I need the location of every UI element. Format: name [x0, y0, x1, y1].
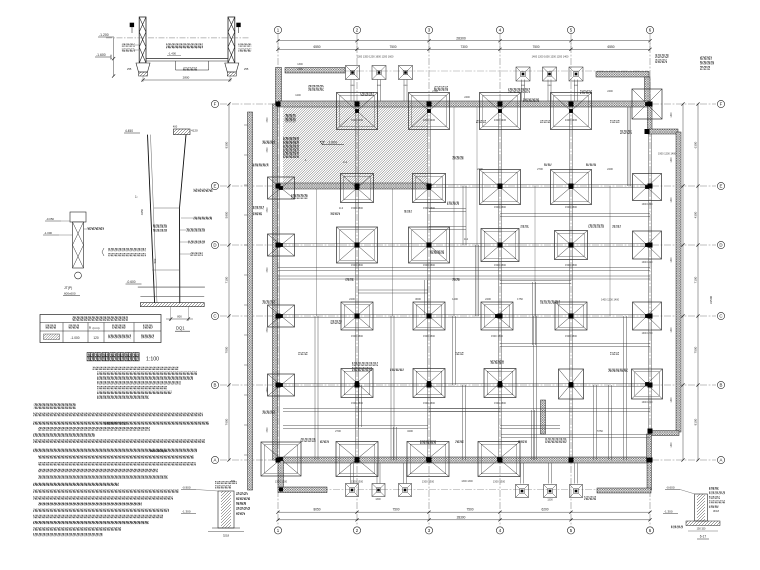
small footing top x=405.5 — [399, 66, 413, 80]
svg-text:1500 1500: 1500 1500 — [351, 402, 363, 405]
svg-text:B: B — [214, 383, 217, 388]
grid: horizontal axis lines A-F — [220, 103, 716, 105]
small footing bottom-right x=522 — [516, 485, 529, 498]
footing J-1 at C6 — [633, 302, 662, 330]
column at E2 — [355, 184, 360, 189]
svg-text:1400: 1400 — [671, 442, 673, 448]
svg-text:-0.900: -0.900 — [182, 486, 191, 490]
svg-text:D: D — [213, 243, 216, 248]
wall: right lower step horizontal — [649, 431, 679, 436]
column at lower step — [648, 429, 653, 434]
grid bubble F — [211, 100, 218, 107]
grid bubble C — [211, 312, 218, 319]
svg-text:1500: 1500 — [267, 387, 269, 393]
svg-text:7000: 7000 — [225, 346, 229, 353]
svg-text:JL3: JL3 — [339, 206, 344, 210]
column at A3 — [427, 458, 432, 463]
svg-text:1500 1500: 1500 1500 — [565, 335, 577, 338]
grid bubble 6 — [646, 527, 653, 534]
svg-text:2800: 2800 — [183, 76, 190, 80]
svg-text:fak=300kpa: fak=300kpa — [150, 449, 167, 453]
footing J-2 at C5 — [555, 302, 587, 330]
svg-text:1500 1500: 1500 1500 — [494, 264, 506, 267]
elevator pit hatched area (-1.000) — [283, 107, 427, 183]
grid bubble 1 — [274, 26, 281, 33]
svg-text:1500 1500: 1500 1500 — [351, 335, 363, 338]
column at C2 — [355, 314, 360, 319]
column at E4 — [498, 184, 503, 189]
pit slab — [146, 58, 228, 60]
partition walls: corridor D-C — [475, 245, 477, 316]
column at D3 — [427, 243, 432, 248]
footing J-1 at E6 — [633, 174, 662, 201]
svg-text:5750: 5750 — [597, 429, 603, 433]
footing J-3 at F4 — [480, 93, 521, 130]
grid bubble 1 — [274, 527, 281, 534]
svg-text:2400: 2400 — [607, 90, 613, 93]
svg-text:7500: 7500 — [392, 508, 399, 512]
svg-text:1300: 1300 — [547, 499, 553, 502]
footing J-1 at B1 — [268, 374, 295, 396]
tower cap — [174, 129, 191, 135]
svg-text:1300 1300: 1300 1300 — [351, 118, 364, 122]
wall: left retaining wall DQ1 — [248, 112, 253, 490]
column at E3 — [427, 184, 432, 189]
svg-text:JT(P): JT(P) — [64, 286, 72, 290]
grid bubble 4 — [496, 527, 503, 534]
stub beams to bottom mini footings — [350, 463, 352, 484]
svg-text:2700: 2700 — [537, 167, 543, 171]
svg-text:1500 1500: 1500 1500 — [351, 264, 363, 267]
slab thickness leader note — [108, 248, 146, 251]
column at D1 — [276, 243, 281, 248]
retaining wall ties — [244, 124, 248, 126]
column at D2 — [355, 243, 360, 248]
svg-text:7300: 7300 — [460, 45, 467, 49]
wall: right step vertical 1 — [648, 104, 653, 132]
svg-text:2700: 2700 — [432, 90, 438, 93]
grid bubble 3 — [425, 26, 432, 33]
svg-text:1300 1300: 1300 1300 — [642, 333, 654, 335]
column at B4 — [498, 383, 503, 388]
scattered annotation text clusters — [291, 194, 308, 199]
svg-text:-0.050: -0.050 — [46, 217, 54, 221]
svg-text:1300: 1300 — [297, 63, 303, 66]
svg-text:-1.400: -1.400 — [168, 52, 176, 56]
foundation beams along grid cols — [355, 104, 357, 460]
grid bubble 3 — [425, 527, 432, 534]
column at A6 — [648, 458, 653, 463]
svg-text:B: B — [720, 383, 723, 388]
grid bubble F — [717, 100, 724, 107]
footing J-1 at D6 — [633, 231, 662, 259]
svg-text:C: C — [719, 314, 722, 319]
column at D6 — [648, 243, 653, 248]
svg-text:1300 1300: 1300 1300 — [565, 118, 578, 122]
column at F2 — [355, 102, 360, 107]
small footing top-right x=549.5 — [543, 67, 557, 81]
footing J-3 at F2 — [337, 93, 378, 130]
small footing top x=352.5 — [346, 66, 360, 80]
column at A4 — [498, 458, 503, 463]
wall: top-left outer segment — [285, 68, 345, 74]
column at C1 — [276, 314, 281, 319]
column at D5 — [569, 243, 574, 248]
footing J-3 at F3 — [409, 93, 450, 130]
drawing title — [87, 353, 159, 363]
svg-text:1400 1200 1400: 1400 1200 1400 — [601, 299, 620, 302]
svg-text:4120: 4120 — [191, 129, 198, 133]
svg-text:1400: 1400 — [671, 257, 673, 263]
svg-text:28300: 28300 — [457, 515, 466, 519]
svg-text:1300 1300: 1300 1300 — [275, 480, 288, 484]
svg-text:1500: 1500 — [267, 327, 269, 333]
footing J-3 at A1 — [261, 442, 301, 476]
pit level label -1.000 — [320, 141, 344, 145]
retaining wall label — [253, 163, 269, 166]
svg-text:3400: 3400 — [407, 429, 413, 433]
svg-text:2400: 2400 — [464, 96, 470, 99]
svg-text:3600: 3600 — [415, 297, 421, 301]
grid bubble 2 — [353, 527, 360, 534]
svg-text:1500: 1500 — [267, 427, 269, 433]
detail: wall section 1-1 (bottom centre-left) — [181, 481, 250, 538]
grid bubble D — [211, 241, 218, 248]
footing J-2 at D5 — [555, 231, 588, 260]
footing J-2 at F6 — [632, 89, 662, 119]
dimension line top outer — [278, 40, 650, 42]
footing J-3 at E5 — [551, 170, 592, 205]
column below A1 — [279, 488, 283, 492]
svg-text:1500 1500: 1500 1500 — [565, 264, 577, 267]
column at D4 — [498, 243, 503, 248]
column at C4 — [498, 314, 503, 319]
svg-text:1400: 1400 — [671, 327, 673, 333]
svg-text:A: A — [720, 458, 723, 463]
svg-text:1400: 1400 — [671, 112, 673, 118]
svg-text:-1.000: -1.000 — [70, 336, 79, 340]
tower right leader labels — [193, 189, 213, 192]
svg-text:1200: 1200 — [295, 94, 301, 97]
legend table — [40, 315, 161, 343]
small footing bottom x=378.5 — [372, 484, 385, 497]
svg-text:7500: 7500 — [694, 346, 698, 353]
pit annotation text — [285, 114, 296, 122]
pit section left wall — [139, 17, 146, 63]
footing J-1 at D1 — [268, 234, 295, 256]
detail: elevator pit A-A section — [95, 17, 251, 82]
dimension lines right — [682, 104, 684, 460]
svg-text:1400: 1400 — [452, 297, 458, 301]
pit section footing feet — [136, 63, 150, 72]
dimension line bottom outer — [278, 519, 650, 521]
footing J-3 at D2 — [337, 227, 378, 263]
grid bubble D — [717, 241, 724, 248]
wall: left exterior wall — [273, 104, 278, 460]
footing J-3 at F5 — [551, 93, 592, 130]
svg-text:1300 1300: 1300 1300 — [423, 118, 436, 122]
small footing bottom x=405 — [399, 484, 412, 497]
partition walls: rooms bottom-right — [501, 434, 650, 436]
svg-text:1500 1500: 1500 1500 — [423, 402, 435, 405]
wall: right lower vertical — [647, 434, 652, 461]
svg-text:-1.300: -1.300 — [182, 510, 191, 514]
svg-text:1300: 1300 — [297, 68, 303, 71]
svg-text:1300 1300: 1300 1300 — [642, 204, 654, 206]
svg-text:4450: 4450 — [140, 208, 144, 215]
wall: top-left corner vertical — [276, 68, 282, 105]
wall: bottom wall on grid A — [278, 457, 650, 463]
svg-text:1500 1500: 1500 1500 — [565, 206, 577, 209]
svg-text:1:: 1: — [135, 195, 138, 199]
small footing bottom-right x=576 — [570, 485, 583, 498]
svg-text:1300 1300: 1300 1300 — [422, 480, 435, 484]
svg-text:800: 800 — [177, 315, 182, 319]
svg-text:2700: 2700 — [335, 429, 341, 433]
general notes body — [33, 413, 203, 417]
partition: small rooms grid 3-4 above C — [427, 291, 429, 293]
wall: below-A right vertical — [647, 461, 652, 490]
wall: below-A bottom right horizontal — [597, 488, 651, 493]
svg-text:1300 1350 1200 1600 1200 1: 1300 1350 1200 1600 1200 1600 — [357, 56, 394, 59]
footing J-2 at B3 — [413, 369, 445, 398]
pit section right wall — [228, 17, 235, 63]
grid bubble 2 — [353, 26, 360, 33]
grid bubble 5 — [567, 527, 574, 534]
wall: right exterior wall — [676, 132, 681, 432]
svg-text:4.450: 4.450 — [125, 129, 133, 133]
column at B6 — [648, 383, 653, 388]
svg-text:1400: 1400 — [671, 197, 673, 203]
wall: pit bottom wall on grid E — [278, 183, 428, 189]
svg-text:2400: 2400 — [485, 297, 491, 301]
small footing top-right x=576 — [569, 67, 583, 81]
partition walls: rooms B-A middle — [429, 408, 500, 410]
footing J-3 at A2 — [336, 442, 378, 477]
detail: independent footing column section — [43, 212, 104, 296]
svg-text:6200: 6200 — [541, 508, 548, 512]
svg-text:600: 600 — [231, 480, 236, 483]
svg-text:3F18: 3F18 — [713, 509, 719, 513]
svg-text:1500 1500: 1500 1500 — [491, 335, 503, 338]
grid bubble 5 — [567, 26, 574, 33]
svg-text:2400: 2400 — [477, 167, 483, 171]
column at E5 — [569, 184, 574, 189]
grid bubble E — [211, 182, 218, 189]
svg-text:1500 1500: 1500 1500 — [494, 402, 506, 405]
svg-text:E: E — [720, 184, 723, 189]
column at C3 — [427, 314, 432, 319]
svg-text:4300: 4300 — [694, 211, 698, 218]
svg-text:-1.300: -1.300 — [664, 510, 673, 514]
small footing top-right x=523 — [516, 67, 530, 81]
tower tapered walls — [148, 135, 155, 303]
column at A5 — [569, 458, 574, 463]
svg-text:400: 400 — [173, 125, 178, 129]
svg-text:DQ1: DQ1 — [176, 326, 185, 331]
svg-text:1500 1500: 1500 1500 — [423, 207, 435, 210]
footing J-3 at A4 — [478, 442, 520, 477]
svg-text:-1.200: -1.200 — [99, 33, 109, 37]
svg-text:1300 1300: 1300 1300 — [493, 480, 506, 484]
svg-text:1400 1200 1600 1200 1200 140: 1400 1200 1600 1200 1200 1400 — [532, 56, 569, 59]
svg-text:150 150: 150 150 — [697, 528, 706, 531]
detail: wall section 6-17 (bottom right) — [663, 486, 725, 540]
svg-text:1500 1500: 1500 1500 — [423, 335, 435, 338]
column at F3 — [427, 102, 432, 107]
column at B2 — [355, 383, 360, 388]
grid: vertical axis lines 1-6 — [277, 34, 279, 526]
detail: retaining wall elevation D01 — [102, 125, 213, 321]
column at C5 — [569, 314, 574, 319]
svg-text:-0.600: -0.600 — [127, 280, 136, 284]
svg-text:7100: 7100 — [694, 276, 698, 283]
svg-text:1300 1300: 1300 1300 — [642, 262, 654, 264]
svg-text:(mm): (mm) — [93, 326, 100, 330]
wall: top-right outer segment — [596, 72, 649, 78]
svg-text:5900: 5900 — [225, 211, 229, 218]
svg-text:600x600: 600x600 — [64, 292, 76, 296]
svg-text:GB50007-2011: GB50007-2011 — [104, 421, 127, 425]
svg-text:-1.000: -1.000 — [44, 231, 52, 235]
column at A2 — [355, 458, 360, 463]
svg-text:255: 255 — [127, 67, 132, 71]
pit section dims — [142, 79, 232, 81]
footing J-2 at B4 — [484, 369, 516, 398]
small footing bottom-right x=550 — [544, 485, 557, 498]
footing J-3 at A3 — [407, 442, 449, 477]
D01 base dims — [170, 307, 172, 321]
grid bubble B — [211, 381, 218, 388]
svg-text:C: C — [213, 314, 216, 319]
wall: right step horizontal — [648, 129, 678, 134]
partition walls: rooms C-B right — [500, 343, 650, 345]
wall: top-right corner vertical — [645, 77, 651, 104]
column at F1 — [276, 102, 281, 107]
svg-text:6550: 6550 — [607, 45, 614, 49]
partition walls: rooms E-D right — [500, 213, 650, 215]
grid bubble A — [211, 456, 218, 463]
column at E1 — [276, 184, 281, 189]
svg-text:1500 1500: 1500 1500 — [494, 206, 506, 209]
column at A6 corner — [647, 458, 652, 463]
footing J-3 at E4 — [480, 170, 521, 205]
pit section A markers — [130, 23, 134, 27]
svg-text:F: F — [720, 102, 723, 107]
svg-text:6-17: 6-17 — [700, 535, 707, 539]
wall: below-A left vertical — [278, 460, 284, 488]
column at F6 — [648, 102, 653, 107]
footing J-2 at C3 — [413, 302, 445, 330]
svg-text:1500: 1500 — [267, 117, 269, 123]
footing J-2 at C2 — [341, 302, 373, 330]
svg-text:6550: 6550 — [313, 45, 320, 49]
footing J-2 at E2 — [341, 174, 374, 203]
svg-text:500: 500 — [153, 258, 157, 263]
svg-text:255: 255 — [244, 67, 249, 71]
svg-text:120: 120 — [93, 336, 99, 340]
svg-text:JL4: JL4 — [343, 160, 348, 164]
column at B5 — [569, 383, 574, 388]
footing J-2 at B2 — [341, 369, 373, 398]
column at F4 — [498, 102, 503, 107]
svg-text:1400: 1400 — [671, 397, 673, 403]
footing J-1 at E1 — [268, 177, 295, 199]
svg-text:7500: 7500 — [532, 45, 539, 49]
general notes heading — [34, 403, 76, 409]
svg-text:1300 1300: 1300 1300 — [642, 402, 654, 404]
wall: below-A bottom left horizontal — [278, 487, 327, 493]
svg-text:1500: 1500 — [267, 147, 269, 153]
title notes — [93, 367, 197, 399]
svg-text:6300: 6300 — [694, 141, 698, 148]
dimension line left — [228, 104, 230, 460]
wall: stair wall near grid 5 — [541, 400, 546, 434]
footing J-2 at C4 — [481, 302, 513, 330]
svg-text:E: E — [214, 184, 217, 189]
svg-text:7100: 7100 — [225, 276, 229, 283]
svg-text:F: F — [214, 102, 217, 107]
svg-text:7600: 7600 — [225, 418, 229, 425]
grid bubble A — [717, 456, 724, 463]
svg-text:A: A — [214, 458, 217, 463]
column at C6 — [648, 314, 653, 319]
svg-text:1300: 1300 — [375, 498, 381, 501]
svg-text:-1.000: -1.000 — [327, 141, 337, 145]
svg-text:JL2: JL2 — [464, 237, 469, 241]
column at A1 — [276, 458, 281, 463]
svg-text:1300 1300: 1300 1300 — [461, 480, 473, 483]
svg-text:1500 1500: 1500 1500 — [351, 207, 363, 210]
secondary foundation beams (vertical intermediates) — [316, 186, 318, 316]
svg-text:31500: 31500 — [709, 295, 713, 304]
centerline of top small footing row — [285, 70, 648, 72]
colonnade stub beams to top mini footings — [350, 80, 352, 102]
column at right step — [645, 129, 650, 134]
svg-text:8100: 8100 — [694, 418, 698, 425]
dimension line top inner — [278, 48, 650, 50]
footing J-2 at B6 — [632, 369, 663, 399]
small footing bottom x=352 — [346, 484, 359, 497]
svg-text:B: B — [89, 325, 91, 329]
svg-text:8300: 8300 — [225, 141, 229, 148]
wall: grid F strip wall — [278, 101, 650, 107]
svg-text:1500 1500: 1500 1500 — [423, 264, 435, 267]
footing J-1 at B5 — [559, 369, 584, 399]
footing J-1 at C1 — [268, 305, 295, 327]
corridor walls between D and C — [278, 267, 650, 269]
partition walls: rooms right of pit (grid 3-4, E-D) — [429, 208, 466, 210]
grid bubble E — [717, 182, 724, 189]
centerline of bottom small footing row — [285, 489, 648, 491]
svg-text:1:100: 1:100 — [146, 357, 159, 363]
svg-text:D: D — [719, 243, 722, 248]
svg-text:-0.600: -0.600 — [666, 486, 675, 490]
footing J-2 at E3 — [413, 174, 446, 203]
grid bubble 6 — [646, 26, 653, 33]
svg-text:7500: 7500 — [466, 508, 473, 512]
dimension line bottom inner — [278, 511, 650, 513]
pit section centre dash line — [106, 37, 250, 39]
svg-text:3218: 3218 — [223, 534, 230, 538]
partition walls: stair rooms bottom-left — [283, 408, 650, 410]
svg-text:2400: 2400 — [607, 167, 613, 171]
tower base slab D01 — [138, 286, 205, 288]
lower-half room partitions (vertical) — [314, 316, 316, 460]
svg-text:8050: 8050 — [313, 508, 320, 512]
small footing top x=379 — [372, 66, 386, 80]
svg-text:2400: 2400 — [349, 297, 355, 301]
